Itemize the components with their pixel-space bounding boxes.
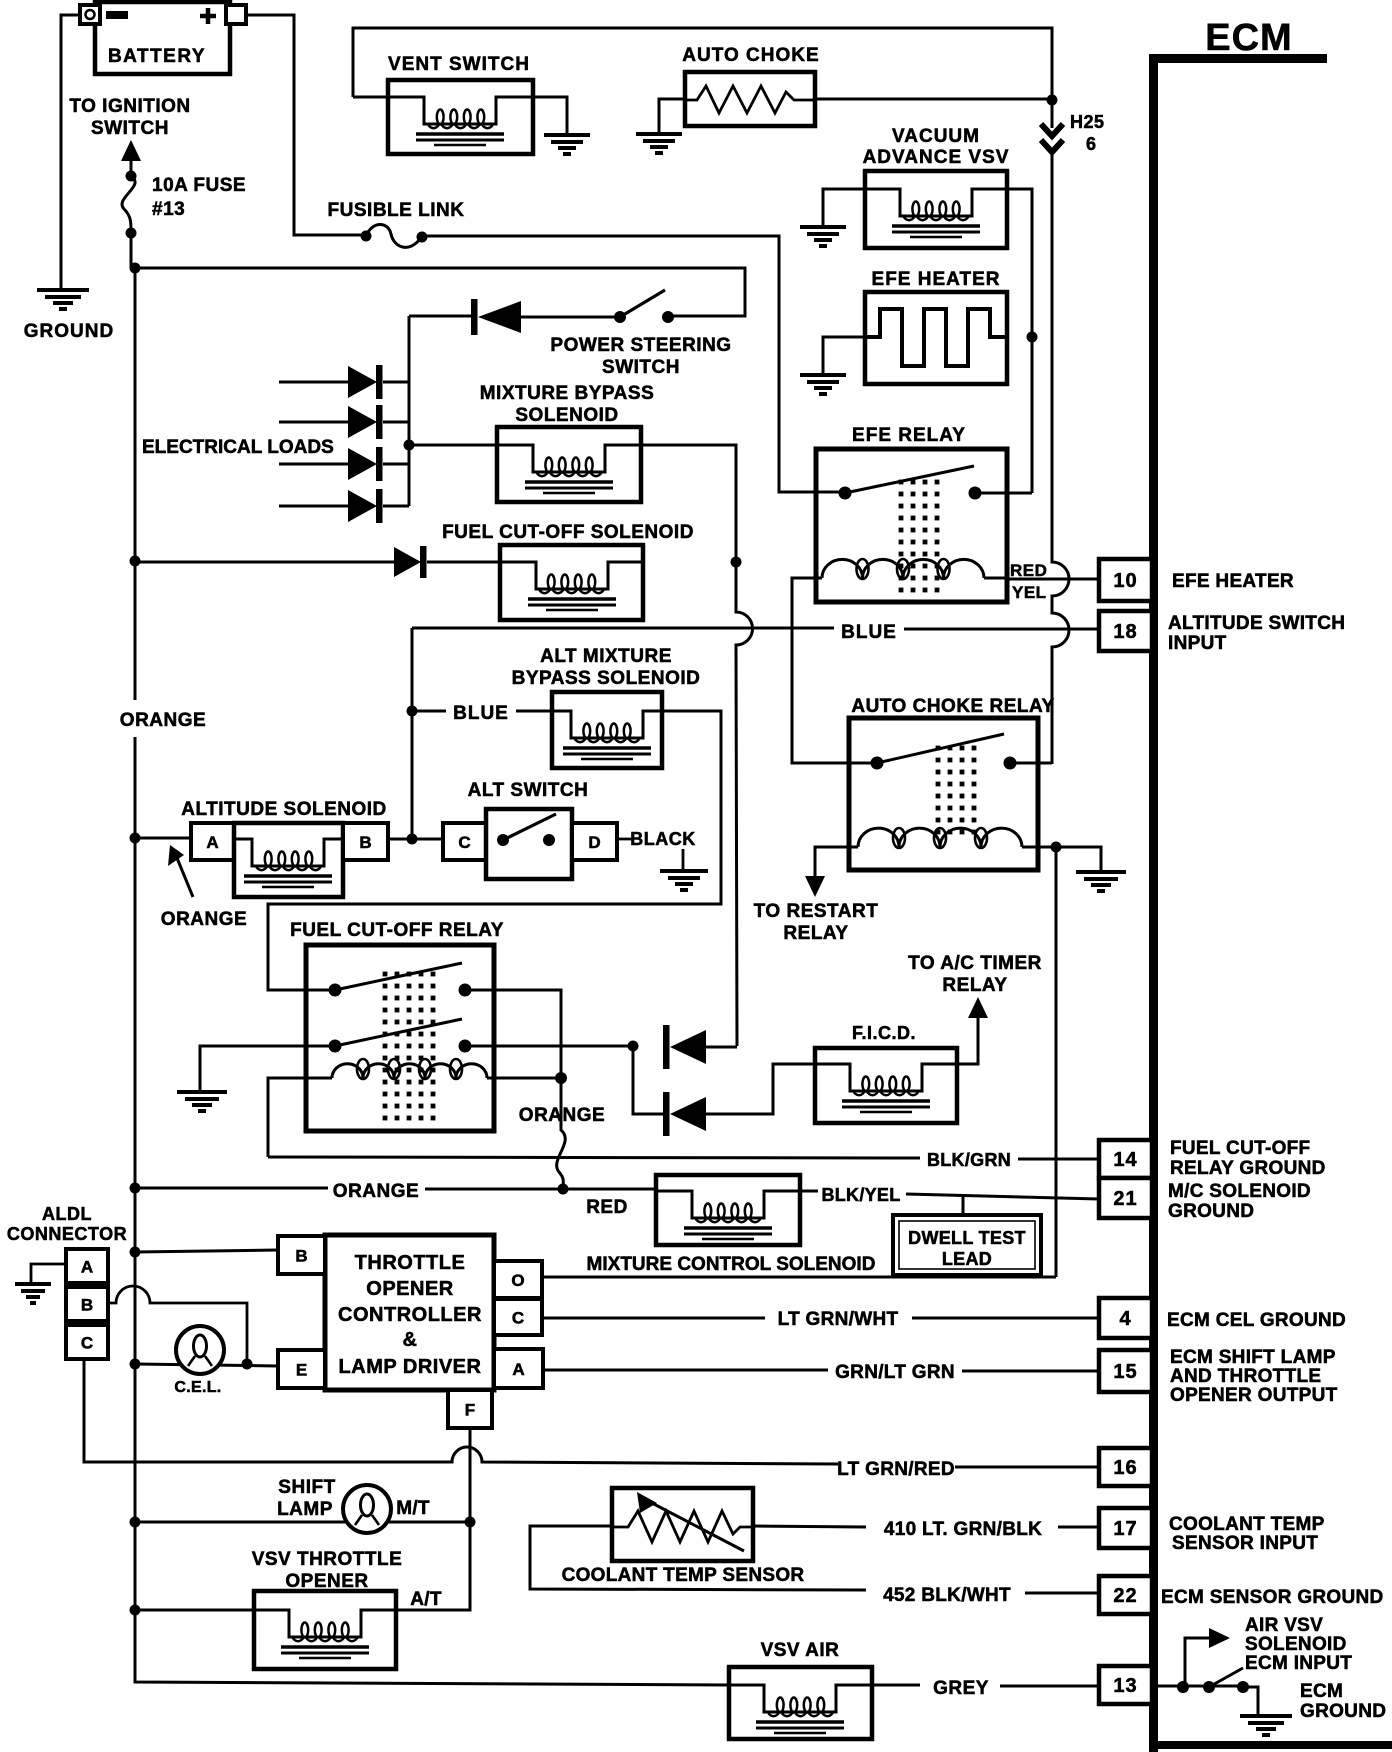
- svg-text:LT GRN/RED: LT GRN/RED: [837, 1459, 955, 1480]
- terminal C (controller): [494, 1299, 542, 1335]
- wire EFE relay coil-left down to auto choke relay contact: [792, 578, 877, 763]
- node A/T row junction: [130, 1605, 141, 1616]
- svg-text:MIXTURE CONTROL SOLENOID: MIXTURE CONTROL SOLENOID: [587, 1254, 876, 1275]
- ground (vacuum advance VSV): [800, 227, 846, 246]
- wire air VSV branch up to arrow: [1185, 1638, 1212, 1687]
- svg-text:BLK/GRN: BLK/GRN: [927, 1150, 1011, 1170]
- relay fuel cut-off relay: [306, 945, 494, 1131]
- wire orange squiggle down to ORANGE row: [557, 1078, 566, 1188]
- svg-text:BYPASS SOLENOID: BYPASS SOLENOID: [512, 668, 701, 689]
- svg-text:C: C: [458, 833, 470, 852]
- svg-text:EFE RELAY: EFE RELAY: [852, 425, 966, 446]
- ground (EFE heater): [800, 375, 846, 394]
- svg-text:BLACK: BLACK: [630, 829, 696, 849]
- svg-text:GROUND: GROUND: [1168, 1201, 1254, 1222]
- svg-text:SWITCH: SWITCH: [602, 357, 680, 378]
- wire battery positive down to fusible link: [246, 15, 364, 235]
- svg-text:SENSOR INPUT: SENSOR INPUT: [1172, 1533, 1318, 1554]
- svg-text:OPENER: OPENER: [366, 1278, 454, 1300]
- terminal A (altitude solenoid): [191, 823, 234, 860]
- svg-text:13: 13: [1113, 1675, 1137, 1697]
- F.I.C.D. solenoid: [815, 1048, 957, 1123]
- VSV air solenoid: [729, 1667, 872, 1739]
- wire vacuum advance VSV right down to EFE relay contact: [1007, 189, 1032, 493]
- dwell test lead box: [893, 1215, 1041, 1275]
- svg-text:14: 14: [1113, 1149, 1137, 1171]
- svg-text:10: 10: [1113, 570, 1137, 592]
- svg-text:E: E: [296, 1361, 307, 1380]
- svg-text:ALT SWITCH: ALT SWITCH: [468, 780, 589, 801]
- svg-text:CONTROLLER: CONTROLLER: [338, 1304, 482, 1326]
- arrow to ignition switch: [130, 158, 133, 174]
- svg-text:TO A/C TIMER: TO A/C TIMER: [908, 953, 1042, 974]
- svg-text:ECM CEL GROUND: ECM CEL GROUND: [1167, 1310, 1346, 1331]
- wire B to C: [388, 838, 443, 841]
- wire ALDL C down and right (LT GRN/RED to pin 16): [84, 1359, 1099, 1467]
- svg-text:FUSIBLE LINK: FUSIBLE LINK: [328, 200, 465, 221]
- connector H25 pin 6 (chevrons): [1041, 124, 1063, 152]
- rheostat coolant temp sensor: [612, 1488, 753, 1561]
- node auto choke coil junction: [1051, 842, 1062, 853]
- svg-text:A/T: A/T: [410, 1589, 442, 1610]
- svg-text:RELAY: RELAY: [783, 923, 848, 944]
- wire terminal A GRN/LT GRN to ECM pin 15: [543, 1370, 1100, 1371]
- fuel cut-off solenoid: [500, 545, 643, 620]
- wire BLUE altitude switch input line to ECM pin 18: [412, 628, 1099, 629]
- svg-text:GROUND: GROUND: [24, 321, 114, 342]
- diode electrical load 4: [279, 489, 409, 523]
- mixture control solenoid: [656, 1175, 800, 1245]
- wire rail to terminal B: [135, 1250, 278, 1252]
- wire into vent switch: [353, 96, 388, 99]
- wire EFE heater left to ground: [823, 337, 865, 375]
- wire vent/auto-choke top loop: [353, 28, 1052, 100]
- fuse F13 10A (squiggle): [126, 171, 137, 182]
- node EFE heater junction: [1027, 332, 1038, 343]
- svg-text:#13: #13: [152, 199, 185, 220]
- node CEL row junction: [130, 1359, 141, 1370]
- svg-text:22: 22: [1113, 1585, 1137, 1607]
- ECM pin 21: [1099, 1178, 1152, 1218]
- wire mixture bypass solenoid return: [641, 445, 736, 562]
- svg-text:LAMP: LAMP: [277, 1499, 333, 1520]
- svg-text:BLK/YEL: BLK/YEL: [821, 1185, 900, 1205]
- svg-text:VSV THROTTLE: VSV THROTTLE: [252, 1549, 403, 1570]
- connector ALDL A: [66, 1249, 108, 1283]
- resistor auto choke: [685, 72, 815, 126]
- diode power steering: [471, 299, 521, 335]
- svg-text:4: 4: [1119, 1308, 1131, 1330]
- fusible link FL: [361, 231, 372, 242]
- ground GROUND (battery): [37, 290, 89, 309]
- ground (alt switch BLACK): [660, 871, 708, 890]
- ground (fuel cut-off relay): [177, 1092, 227, 1111]
- wire auto choke relay coil-right to ground: [1038, 847, 1101, 872]
- wire coil-left to BLK/GRN: [268, 1078, 306, 1157]
- node solenoid returns junction: [731, 557, 742, 568]
- svg-text:ORANGE: ORANGE: [519, 1105, 605, 1126]
- wire coolant sensor left 452 BLK/WHT to pin 22: [530, 1526, 1097, 1593]
- svg-text:ECM INPUT: ECM INPUT: [1245, 1653, 1352, 1674]
- svg-text:RELAY: RELAY: [942, 975, 1007, 996]
- wire auto choke relay right contact to H25 feed: [1010, 762, 1052, 765]
- svg-text:410 LT. GRN/BLK: 410 LT. GRN/BLK: [884, 1519, 1042, 1540]
- svg-text:B: B: [295, 1247, 307, 1266]
- svg-text:10A FUSE: 10A FUSE: [152, 175, 246, 196]
- svg-text:B: B: [359, 833, 371, 852]
- svg-text:ALT MIXTURE: ALT MIXTURE: [540, 646, 672, 667]
- wire dwell test lead branch: [962, 1196, 965, 1215]
- wire vent switch to ground: [533, 97, 567, 135]
- svg-text:RED: RED: [586, 1197, 628, 1218]
- svg-text:21: 21: [1113, 1188, 1137, 1210]
- svg-text:C: C: [81, 1334, 93, 1353]
- wire EFE relay right contact stub: [975, 492, 1032, 495]
- ECM pin 15: [1099, 1350, 1152, 1392]
- node main ignition bus junction: [130, 263, 141, 274]
- svg-text:LT GRN/WHT: LT GRN/WHT: [778, 1309, 899, 1330]
- ground (vent switch): [544, 135, 590, 154]
- wire VSV throttle opener to F line: [396, 1522, 470, 1610]
- wire BLK/GRN to ECM pin 14: [268, 1157, 1099, 1159]
- svg-text:THROTTLE: THROTTLE: [355, 1252, 466, 1274]
- svg-text:MIXTURE BYPASS: MIXTURE BYPASS: [480, 383, 655, 404]
- svg-text:452 BLK/WHT: 452 BLK/WHT: [883, 1585, 1011, 1606]
- svg-text:ELECTRICAL LOADS: ELECTRICAL LOADS: [142, 437, 334, 458]
- node B-row junction: [130, 1247, 141, 1258]
- node F/AT junction: [465, 1517, 476, 1528]
- svg-text:AIR VSV: AIR VSV: [1245, 1615, 1323, 1636]
- svg-text:15: 15: [1113, 1361, 1137, 1383]
- svg-text:TO RESTART: TO RESTART: [754, 901, 879, 922]
- node fuel cut-off solenoid feed: [130, 556, 141, 567]
- ECM pin 17: [1099, 1508, 1152, 1548]
- svg-text:LEAD: LEAD: [942, 1249, 992, 1269]
- node ORANGE/RED junction: [558, 1184, 569, 1195]
- node alt switch feed junction: [407, 834, 418, 845]
- wire contact2 right to diode pair: [465, 1045, 633, 1048]
- svg-text:OPENER OUTPUT: OPENER OUTPUT: [1170, 1385, 1338, 1406]
- svg-text:COOLANT TEMP: COOLANT TEMP: [1169, 1514, 1325, 1535]
- svg-text:C.E.L.: C.E.L.: [174, 1379, 221, 1396]
- node mixture bypass feed junction: [404, 440, 415, 451]
- alt mixture bypass solenoid: [552, 692, 662, 768]
- diode electrical load 1: [279, 365, 409, 399]
- svg-text:ALTITUDE SWITCH: ALTITUDE SWITCH: [1168, 613, 1345, 634]
- svg-text:COOLANT TEMP SENSOR: COOLANT TEMP SENSOR: [562, 1565, 805, 1586]
- altitude solenoid: [234, 823, 343, 897]
- diode D1 (to alt line): [663, 1025, 737, 1069]
- wire CEL row: [135, 1364, 278, 1366]
- terminal B (controller): [278, 1236, 325, 1274]
- svg-text:FUEL CUT-OFF SOLENOID: FUEL CUT-OFF SOLENOID: [442, 522, 694, 543]
- svg-text:VENT SWITCH: VENT SWITCH: [388, 54, 530, 75]
- wire top bus from fuse junction to power steering: [135, 268, 745, 316]
- battery B1: [80, 2, 246, 74]
- terminal E (controller): [278, 1350, 325, 1388]
- wire solenoid return down with hop over BLUE: [736, 562, 753, 1046]
- lamp shift lamp: [343, 1485, 391, 1533]
- wire coolant sensor right 410 LT. GRN/BLK to pin 17: [753, 1526, 1101, 1527]
- svg-text:SOLENOID: SOLENOID: [515, 405, 618, 426]
- svg-text:ADVANCE VSV: ADVANCE VSV: [863, 147, 1010, 168]
- wire to mixture bypass solenoid: [409, 444, 497, 447]
- svg-text:ALTITUDE SOLENOID: ALTITUDE SOLENOID: [181, 799, 387, 820]
- ground (auto choke relay): [1076, 872, 1126, 891]
- wire ALDL A to ground: [31, 1264, 66, 1284]
- wire rail to terminal A: [135, 837, 191, 840]
- wire terminal O to auto choke relay coil: [542, 1276, 1056, 1279]
- arrow AIR VSV SOLENOID ECM INPUT: [1209, 1628, 1230, 1648]
- svg-text:H25: H25: [1070, 112, 1105, 132]
- wire auto choke right to H25 node: [815, 98, 1052, 101]
- svg-text:INPUT: INPUT: [1168, 633, 1227, 654]
- svg-text:GREY: GREY: [933, 1678, 989, 1699]
- heater element EFE heater: [865, 292, 1007, 384]
- svg-text:6: 6: [1086, 134, 1097, 154]
- wire fusible link to EFE relay feed: [422, 236, 816, 492]
- ground (auto choke): [636, 134, 682, 153]
- svg-text:POWER STEERING: POWER STEERING: [550, 335, 731, 356]
- svg-text:DWELL TEST: DWELL TEST: [908, 1228, 1026, 1248]
- svg-text:D: D: [588, 833, 600, 852]
- svg-text:ORANGE: ORANGE: [120, 710, 206, 731]
- svg-text:ECM: ECM: [1300, 1681, 1343, 1702]
- wire ORANGE row: [135, 1188, 656, 1189]
- svg-text:17: 17: [1113, 1518, 1137, 1540]
- diode electrical load 2: [279, 405, 409, 439]
- connector ALDL B: [66, 1287, 108, 1321]
- wire GREY to ECM pin 13: [872, 1685, 1099, 1686]
- svg-text:VACUUM: VACUUM: [892, 126, 980, 147]
- svg-text:O: O: [511, 1271, 524, 1290]
- terminal C (alt switch): [443, 823, 486, 860]
- ECM pin 18: [1099, 611, 1152, 651]
- svg-text:BLUE: BLUE: [841, 622, 897, 643]
- ECM pin 22: [1099, 1576, 1152, 1614]
- svg-text:BLUE: BLUE: [453, 703, 509, 724]
- lamp C.E.L.: [176, 1326, 224, 1374]
- node altitude solenoid feed: [130, 833, 141, 844]
- arrow orange pointer: [177, 858, 193, 897]
- switch power steering: [614, 311, 626, 323]
- node shift lamp row junction: [130, 1517, 141, 1528]
- svg-text:A: A: [206, 833, 218, 852]
- svg-text:16: 16: [1113, 1457, 1137, 1479]
- wire main left rail (ORANGE feed): [134, 268, 137, 1681]
- vacuum advance VSV solenoid: [865, 171, 1007, 248]
- diode electrical load 3: [279, 447, 409, 481]
- svg-text:&: &: [403, 1329, 418, 1351]
- wire power steering row: [409, 316, 745, 317]
- wire electrical loads vertical bus: [408, 316, 411, 506]
- svg-text:FUEL CUT-OFF: FUEL CUT-OFF: [1170, 1138, 1310, 1159]
- wire RED/YEL to ECM pin 10: [1007, 578, 1099, 581]
- wire BLK/YEL to ECM pin 21: [800, 1191, 1099, 1199]
- terminal O (controller): [494, 1261, 542, 1298]
- wire EFE relay left contact stub: [779, 491, 845, 494]
- diode D2 (to FICD): [633, 1046, 815, 1136]
- wire contact1 right to orange squiggle junction: [465, 990, 561, 1078]
- node BLUE / alt mixture bypass junction: [407, 706, 418, 717]
- arrow TO A/C TIMER RELAY: [968, 997, 988, 1018]
- wire shift lamp row M/T: [135, 1521, 470, 1524]
- terminal F (controller): [448, 1390, 492, 1428]
- ECM connector body (left bar + top + bottom): [1149, 54, 1392, 1752]
- connector ALDL C: [66, 1325, 108, 1359]
- svg-text:VSV AIR: VSV AIR: [761, 1640, 840, 1661]
- svg-text:AUTO CHOKE: AUTO CHOKE: [682, 45, 819, 66]
- terminal D (alt switch): [572, 823, 617, 860]
- wire D to BLACK ground: [617, 839, 683, 871]
- svg-text:EFE HEATER: EFE HEATER: [1172, 571, 1294, 592]
- svg-text:C: C: [512, 1309, 524, 1328]
- wire rail bottom corner to VSV AIR (GREY): [135, 1610, 729, 1685]
- svg-text:M/T: M/T: [396, 1498, 430, 1519]
- svg-text:ECM SHIFT LAMP: ECM SHIFT LAMP: [1170, 1347, 1336, 1368]
- wire terminal F down to shift lamp row: [469, 1428, 472, 1522]
- svg-text:SWITCH: SWITCH: [91, 118, 169, 139]
- svg-text:SHIFT: SHIFT: [278, 1477, 335, 1498]
- node CEL/E junction: [242, 1359, 253, 1370]
- wire vacuum advance VSV left to ground: [823, 189, 865, 227]
- wire FICD right up to A/C timer relay arrow: [957, 1014, 978, 1064]
- terminal B (altitude solenoid): [343, 823, 388, 860]
- svg-text:ORANGE: ORANGE: [333, 1181, 419, 1202]
- terminal A (controller): [494, 1349, 543, 1388]
- mixture bypass solenoid: [497, 427, 641, 502]
- node ORANGE row left junction: [130, 1183, 141, 1194]
- ECM pin 14: [1099, 1140, 1152, 1178]
- svg-text:ALDL: ALDL: [42, 1204, 92, 1224]
- ECM pin 4: [1099, 1298, 1152, 1338]
- arrow TO RESTART RELAY: [805, 876, 825, 897]
- vent switch VSV (solenoid): [388, 80, 533, 154]
- wire auto choke relay coil-left to restart relay arrow: [815, 847, 849, 878]
- wire H25 vertical feed down (with hops over pin10/pin18 wires): [1052, 100, 1069, 764]
- ECM pin 16: [1099, 1448, 1152, 1486]
- ground ECM GROUND: [1240, 1716, 1292, 1735]
- wire ALDL B with hop over rail: [108, 1286, 247, 1364]
- wire alt mixture bypass return down-left to fuel cut-off relay: [268, 711, 721, 990]
- node coil/contact junction: [555, 1072, 567, 1084]
- svg-text:ECM SENSOR GROUND: ECM SENSOR GROUND: [1161, 1587, 1384, 1608]
- wire terminal C LT GRN/WHT to ECM pin 4: [542, 1317, 1099, 1320]
- wire pin 13 to air VSV switch: [1158, 1686, 1258, 1716]
- svg-text:GRN/LT GRN: GRN/LT GRN: [835, 1362, 955, 1383]
- wire BLUE to alt mixture bypass solenoid: [412, 710, 552, 713]
- wire battery negative to ground: [61, 15, 80, 290]
- wire terminal-O line vertical: [1055, 847, 1058, 1277]
- svg-text:A: A: [81, 1258, 93, 1277]
- svg-text:FUEL CUT-OFF RELAY: FUEL CUT-OFF RELAY: [290, 920, 504, 941]
- svg-text:YEL: YEL: [1012, 583, 1047, 602]
- diode fuel cut-off solenoid feed: [135, 546, 500, 578]
- svg-text:A: A: [512, 1360, 524, 1379]
- relay auto choke relay: [849, 718, 1038, 870]
- svg-text:TO IGNITION: TO IGNITION: [69, 96, 190, 117]
- svg-text:ORANGE: ORANGE: [161, 909, 247, 930]
- svg-text:F: F: [465, 1401, 475, 1420]
- switch air VSV solenoid ECM input: [1177, 1681, 1189, 1693]
- wire auto choke left to ground: [659, 99, 685, 134]
- ECM pin 10: [1099, 559, 1152, 601]
- VSV throttle opener solenoid: [254, 1591, 396, 1669]
- svg-text:CONNECTOR: CONNECTOR: [7, 1224, 127, 1244]
- svg-text:ECM: ECM: [1205, 17, 1292, 59]
- ECM pin 13: [1099, 1666, 1152, 1704]
- relay EFE relay: [816, 449, 1007, 602]
- wire coil-right to junction: [494, 1077, 561, 1080]
- svg-text:F.I.C.D.: F.I.C.D.: [852, 1023, 916, 1043]
- node diode pair junction: [628, 1041, 639, 1052]
- svg-text:EFE HEATER: EFE HEATER: [872, 269, 1001, 290]
- svg-text:SOLENOID: SOLENOID: [1245, 1634, 1347, 1655]
- svg-text:GROUND: GROUND: [1300, 1701, 1386, 1722]
- switch alt switch: [486, 809, 572, 879]
- ground (ALDL A): [15, 1284, 51, 1303]
- svg-text:RED: RED: [1010, 561, 1047, 580]
- svg-text:RELAY GROUND: RELAY GROUND: [1170, 1158, 1326, 1179]
- wire BLUE branch down to alt section: [411, 628, 414, 838]
- svg-text:18: 18: [1113, 621, 1137, 643]
- wire A/T row: [135, 1609, 254, 1612]
- svg-text:AND THROTTLE: AND THROTTLE: [1170, 1366, 1321, 1387]
- svg-text:BATTERY: BATTERY: [108, 46, 206, 67]
- svg-text:M/C SOLENOID: M/C SOLENOID: [1168, 1181, 1311, 1202]
- node H25 junction: [1047, 95, 1058, 106]
- svg-text:LAMP DRIVER: LAMP DRIVER: [339, 1356, 482, 1378]
- svg-text:B: B: [81, 1296, 93, 1315]
- svg-text:AUTO CHOKE RELAY: AUTO CHOKE RELAY: [851, 696, 1054, 717]
- wire contact2 left to ground: [200, 1046, 335, 1092]
- controller box THROTTLE OPENER CONTROLLER & LAMP DRIVER: [325, 1235, 494, 1390]
